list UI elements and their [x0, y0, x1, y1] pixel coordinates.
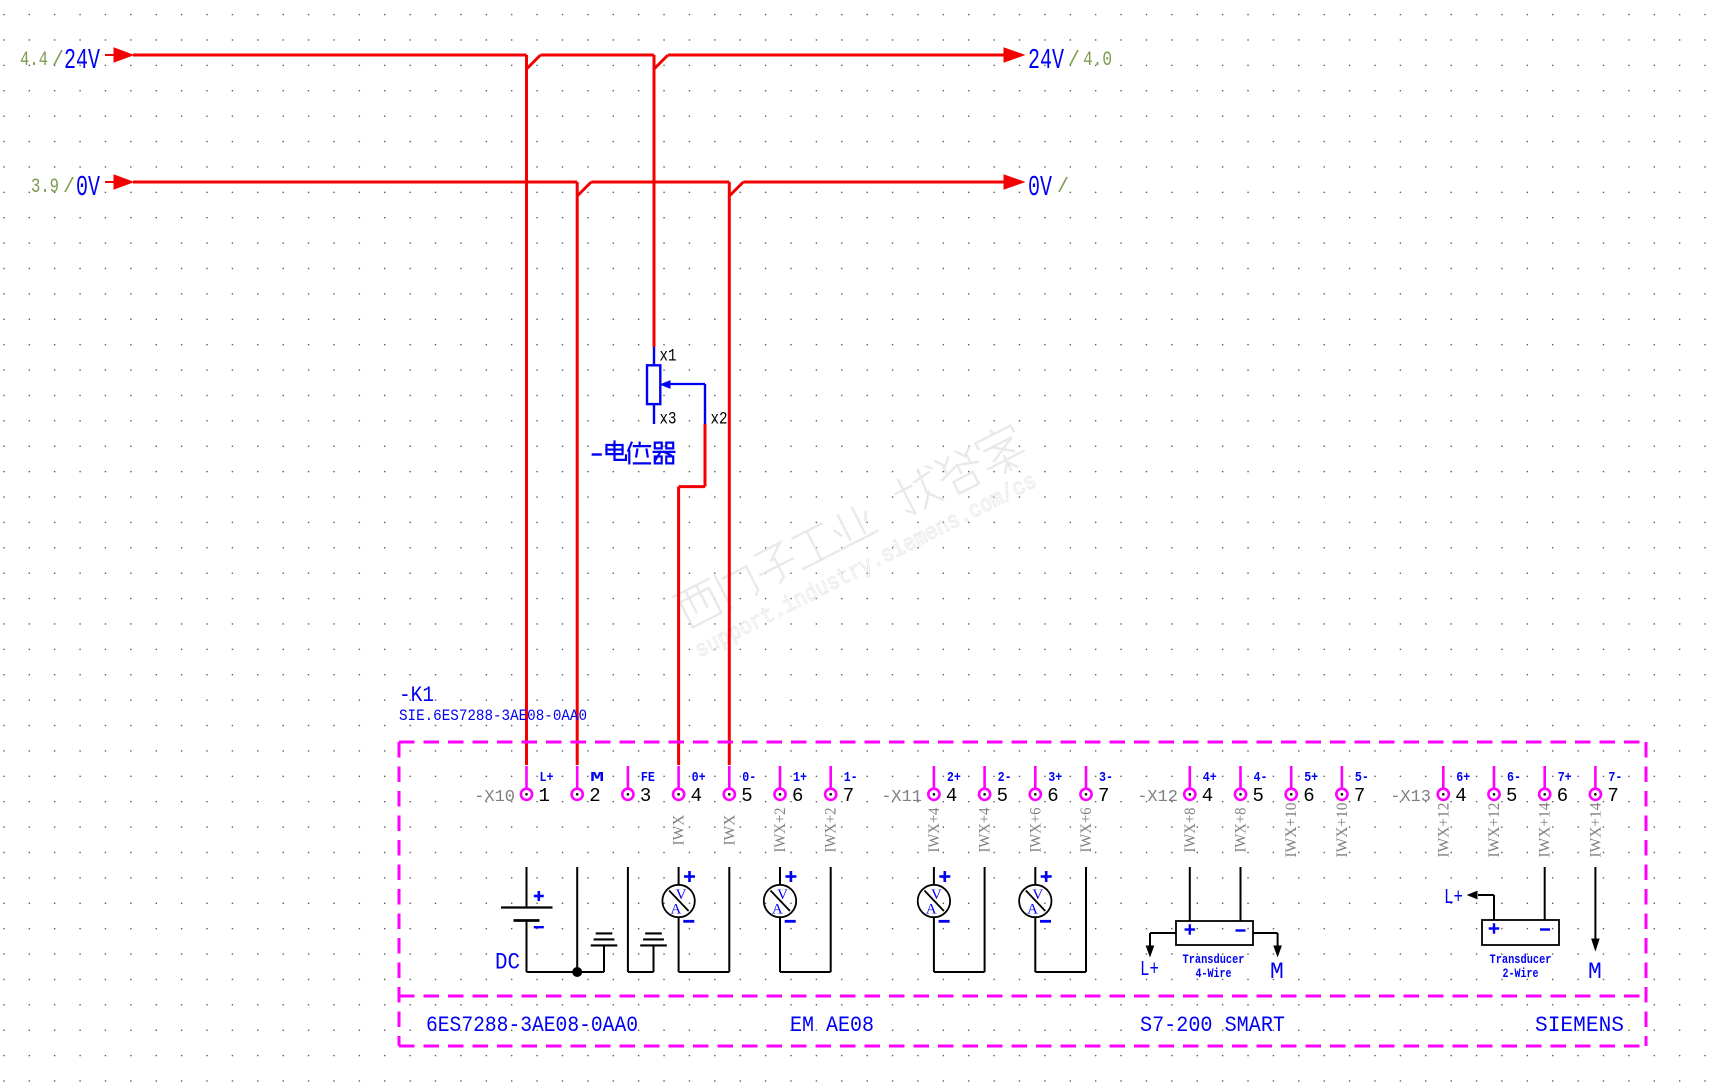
- svg-text:-X12: -X12: [1137, 788, 1178, 807]
- svg-text:3.9: 3.9: [31, 176, 59, 199]
- svg-text:1+: 1+: [793, 770, 807, 786]
- svg-text:IWX+14: IWX+14: [1587, 802, 1604, 857]
- svg-text:4: 4: [691, 785, 702, 807]
- svg-text:SIEMENS: SIEMENS: [1535, 1012, 1624, 1038]
- svg-text:5-: 5-: [1355, 770, 1369, 786]
- svg-text:4: 4: [1455, 785, 1466, 807]
- svg-text:4-: 4-: [1254, 770, 1268, 786]
- svg-text:A: A: [670, 902, 681, 918]
- svg-text:5+: 5+: [1304, 770, 1318, 786]
- svg-text:6: 6: [1557, 785, 1568, 807]
- svg-text:-X11: -X11: [881, 788, 922, 807]
- svg-text:-X10: -X10: [474, 788, 515, 807]
- svg-text:6ES7288-3AE08-0AA0: 6ES7288-3AE08-0AA0: [426, 1012, 638, 1038]
- svg-text:4-Wire: 4-Wire: [1196, 966, 1232, 981]
- svg-text:M: M: [590, 770, 604, 786]
- svg-text:IWX+6: IWX+6: [1078, 807, 1095, 852]
- svg-text:IWX+2: IWX+2: [823, 808, 840, 853]
- svg-text:7: 7: [843, 785, 854, 807]
- svg-text:EM AE08: EM AE08: [790, 1012, 874, 1038]
- svg-text:3: 3: [640, 785, 651, 807]
- svg-text:7: 7: [1607, 785, 1618, 807]
- svg-text:L+: L+: [540, 770, 554, 786]
- svg-text:IWX+4: IWX+4: [926, 807, 943, 852]
- svg-text:x1: x1: [660, 347, 677, 367]
- svg-text:S7-200 SMART: S7-200 SMART: [1140, 1012, 1285, 1038]
- svg-text:L+: L+: [1140, 959, 1159, 982]
- svg-text:24V: 24V: [1028, 44, 1064, 77]
- svg-text:A: A: [926, 902, 937, 918]
- svg-text:IWX: IWX: [721, 815, 738, 846]
- svg-text:Transducer: Transducer: [1183, 952, 1245, 967]
- svg-text:IWX+4: IWX+4: [977, 807, 994, 852]
- svg-text:7-: 7-: [1608, 770, 1622, 786]
- svg-text:FE: FE: [641, 770, 655, 786]
- svg-text:IWX+6: IWX+6: [1027, 807, 1044, 852]
- svg-text:A: A: [1027, 902, 1038, 918]
- svg-text:support.industry.siemens.com/c: support.industry.siemens.com/cs: [691, 468, 1041, 664]
- svg-text:7: 7: [1098, 785, 1109, 807]
- svg-text:/: /: [1068, 49, 1080, 72]
- svg-text:6-: 6-: [1507, 770, 1521, 786]
- svg-text:IWX+14: IWX+14: [1537, 802, 1554, 857]
- svg-text:M: M: [1588, 959, 1602, 985]
- svg-text:5: 5: [997, 785, 1008, 807]
- svg-text:IWX+8: IWX+8: [1233, 807, 1250, 852]
- svg-text:5: 5: [741, 785, 752, 807]
- svg-text:2-Wire: 2-Wire: [1503, 966, 1539, 981]
- svg-text:x3: x3: [660, 410, 677, 430]
- svg-text:4: 4: [946, 785, 957, 807]
- svg-text:0-: 0-: [742, 770, 756, 786]
- svg-text:IWX: IWX: [671, 815, 688, 846]
- svg-text:2+: 2+: [947, 770, 961, 786]
- svg-text:M: M: [1270, 959, 1284, 985]
- svg-text:-K1: -K1: [399, 683, 434, 708]
- svg-text:24V: 24V: [64, 44, 100, 77]
- svg-text:/: /: [52, 49, 64, 72]
- svg-text:5: 5: [1506, 785, 1517, 807]
- svg-text:Transducer: Transducer: [1490, 952, 1552, 967]
- svg-text:0+: 0+: [692, 770, 706, 786]
- svg-text:6: 6: [1047, 785, 1058, 807]
- svg-text:1-: 1-: [844, 770, 858, 786]
- svg-text:4: 4: [1202, 785, 1213, 807]
- svg-text:0V: 0V: [76, 171, 100, 204]
- svg-text:6: 6: [1303, 785, 1314, 807]
- svg-text:3-: 3-: [1099, 770, 1113, 786]
- svg-text:IWX+12: IWX+12: [1486, 803, 1503, 858]
- svg-text:6+: 6+: [1456, 770, 1470, 786]
- svg-text:2-: 2-: [998, 770, 1012, 786]
- svg-text:-X13: -X13: [1390, 788, 1431, 807]
- svg-text:/: /: [63, 176, 75, 199]
- svg-text:x2: x2: [711, 410, 728, 430]
- svg-text:0V: 0V: [1028, 171, 1052, 204]
- svg-text:4+: 4+: [1203, 770, 1217, 786]
- svg-text:7: 7: [1354, 785, 1365, 807]
- svg-text:L+: L+: [1444, 887, 1463, 910]
- svg-text:3+: 3+: [1048, 770, 1062, 786]
- svg-text:1: 1: [539, 785, 550, 807]
- svg-text:IWX+8: IWX+8: [1182, 807, 1199, 852]
- svg-text:4.4: 4.4: [20, 49, 48, 72]
- svg-text:2: 2: [589, 785, 600, 807]
- svg-text:DC: DC: [495, 950, 520, 976]
- svg-text:5: 5: [1253, 785, 1264, 807]
- svg-text:A: A: [772, 902, 783, 918]
- svg-text:SIE.6ES7288-3AE08-0AA0: SIE.6ES7288-3AE08-0AA0: [399, 707, 587, 725]
- svg-text:6: 6: [792, 785, 803, 807]
- svg-text:IWX+10: IWX+10: [1334, 802, 1351, 857]
- svg-text:IWX+10: IWX+10: [1283, 802, 1300, 857]
- svg-text:4.0: 4.0: [1083, 49, 1112, 72]
- svg-text:IWX+12: IWX+12: [1435, 803, 1452, 858]
- svg-text:7+: 7+: [1558, 770, 1572, 786]
- svg-text:/: /: [1057, 176, 1069, 199]
- svg-text:IWX+2: IWX+2: [772, 808, 789, 853]
